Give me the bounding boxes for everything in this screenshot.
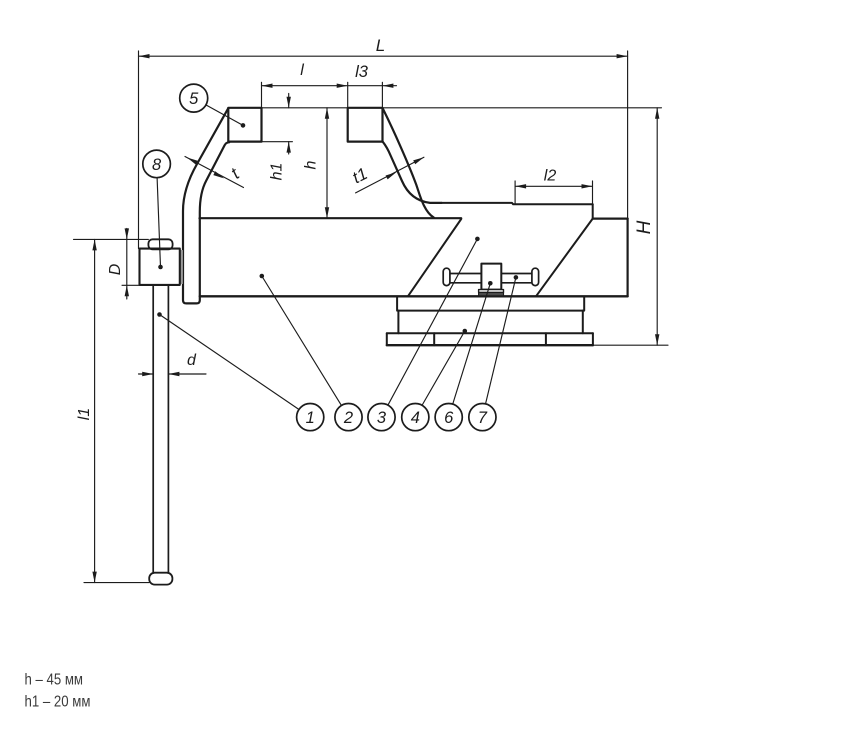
lock handle right knob bbox=[532, 268, 539, 285]
svg-text:H: H bbox=[634, 220, 655, 234]
svg-text:t1: t1 bbox=[349, 164, 370, 187]
slide top surface with step bbox=[442, 203, 593, 204]
svg-text:l3: l3 bbox=[355, 63, 369, 81]
body right edge bbox=[626, 219, 628, 297]
callout circle 6 bbox=[435, 404, 462, 431]
screw collar bbox=[148, 239, 172, 249]
body bottom edge bbox=[200, 295, 628, 297]
svg-text:D: D bbox=[107, 263, 124, 275]
slide front diagonal d1 bbox=[408, 219, 461, 296]
swivel base middle right edge bbox=[582, 311, 584, 334]
leader 7 bbox=[486, 277, 516, 404]
svg-text:3: 3 bbox=[377, 409, 387, 427]
svg-text:h – 45 мм: h – 45 мм bbox=[25, 672, 84, 689]
callout circle 4 bbox=[402, 404, 429, 431]
dimension t1 bbox=[356, 157, 424, 193]
svg-text:h1: h1 bbox=[269, 163, 286, 181]
screw nut block bbox=[140, 249, 180, 285]
svg-text:7: 7 bbox=[478, 409, 488, 427]
lock screw block bbox=[481, 264, 501, 290]
svg-text:L: L bbox=[376, 36, 385, 55]
handle knob bbox=[149, 573, 172, 585]
dimension l3 bbox=[381, 82, 383, 108]
callout circle 1 bbox=[297, 404, 324, 431]
body top edge bbox=[200, 217, 462, 219]
base bottom line bbox=[387, 344, 593, 346]
dimension d bbox=[139, 373, 207, 375]
lock shoe (hatched) bbox=[479, 292, 504, 295]
dimension H bbox=[593, 108, 668, 345]
swivel base middle left edge bbox=[397, 311, 399, 334]
callout circle 5 bbox=[180, 84, 208, 112]
leader 8 bbox=[157, 178, 160, 267]
svg-text:2: 2 bbox=[343, 409, 353, 427]
svg-text:8: 8 bbox=[152, 156, 162, 174]
svg-text:d: d bbox=[187, 352, 197, 369]
leader 5 bbox=[206, 105, 243, 125]
step vertical edge bbox=[592, 204, 594, 218]
lock handle bar bbox=[449, 274, 533, 283]
svg-text:l: l bbox=[300, 62, 304, 79]
svg-text:5: 5 bbox=[189, 90, 199, 108]
handle rod bbox=[152, 285, 154, 573]
body top-right edge bbox=[593, 218, 628, 220]
swivel base top plate bbox=[397, 297, 584, 310]
leader 1 bbox=[160, 315, 300, 410]
base flange line bbox=[387, 332, 593, 334]
fixed jaw support arm bbox=[183, 108, 229, 303]
svg-text:4: 4 bbox=[411, 409, 420, 427]
movable jaw insert block (right) bbox=[348, 108, 383, 142]
svg-text:l2: l2 bbox=[544, 168, 557, 185]
svg-text:h: h bbox=[303, 160, 320, 169]
dimension h bbox=[326, 108, 328, 218]
dimension l1 bbox=[84, 239, 149, 582]
fixed jaw insert block (left) bbox=[228, 108, 261, 142]
dimension D bbox=[74, 229, 151, 300]
callout circle 8 bbox=[143, 150, 171, 178]
svg-text:h1 – 20 мм: h1 – 20 мм bbox=[25, 693, 91, 710]
dimension t bbox=[185, 157, 244, 188]
lock foot plate bbox=[479, 290, 504, 293]
callout circle 7 bbox=[469, 404, 496, 431]
svg-text:6: 6 bbox=[444, 409, 454, 427]
left clamp lug bbox=[387, 333, 434, 345]
leader 3 bbox=[388, 239, 478, 405]
callout circle 2 bbox=[335, 404, 362, 431]
dimension l line bbox=[262, 82, 397, 142]
right clamp lug bbox=[546, 333, 593, 345]
movable jaw slide outer edge bbox=[383, 108, 434, 218]
body rear diagonal d2 bbox=[536, 219, 593, 297]
dimension h1 bbox=[262, 94, 293, 155]
lock handle left knob bbox=[443, 268, 450, 285]
svg-text:1: 1 bbox=[306, 409, 315, 427]
dimension L line bbox=[139, 51, 628, 249]
leader 4 bbox=[422, 331, 465, 405]
svg-text:l1: l1 bbox=[76, 408, 93, 420]
dimension l2 bbox=[515, 181, 592, 204]
callout circle 3 bbox=[368, 404, 395, 431]
screw shaft shadow bbox=[180, 250, 183, 284]
leader 6 bbox=[453, 283, 491, 404]
movable jaw slide inner edge bbox=[383, 142, 442, 203]
top horizontal line: jaw tops + H extension bbox=[228, 107, 661, 109]
leader 2 bbox=[262, 276, 342, 406]
